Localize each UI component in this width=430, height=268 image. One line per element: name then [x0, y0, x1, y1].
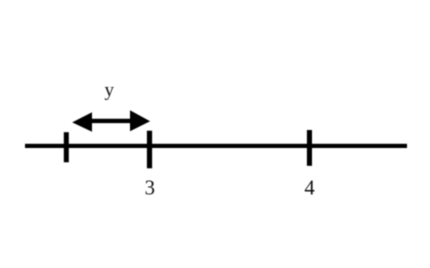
- svg-text:4: 4: [304, 177, 315, 200]
- svg-text:3: 3: [145, 176, 155, 199]
- svg-text:y: y: [104, 80, 114, 101]
